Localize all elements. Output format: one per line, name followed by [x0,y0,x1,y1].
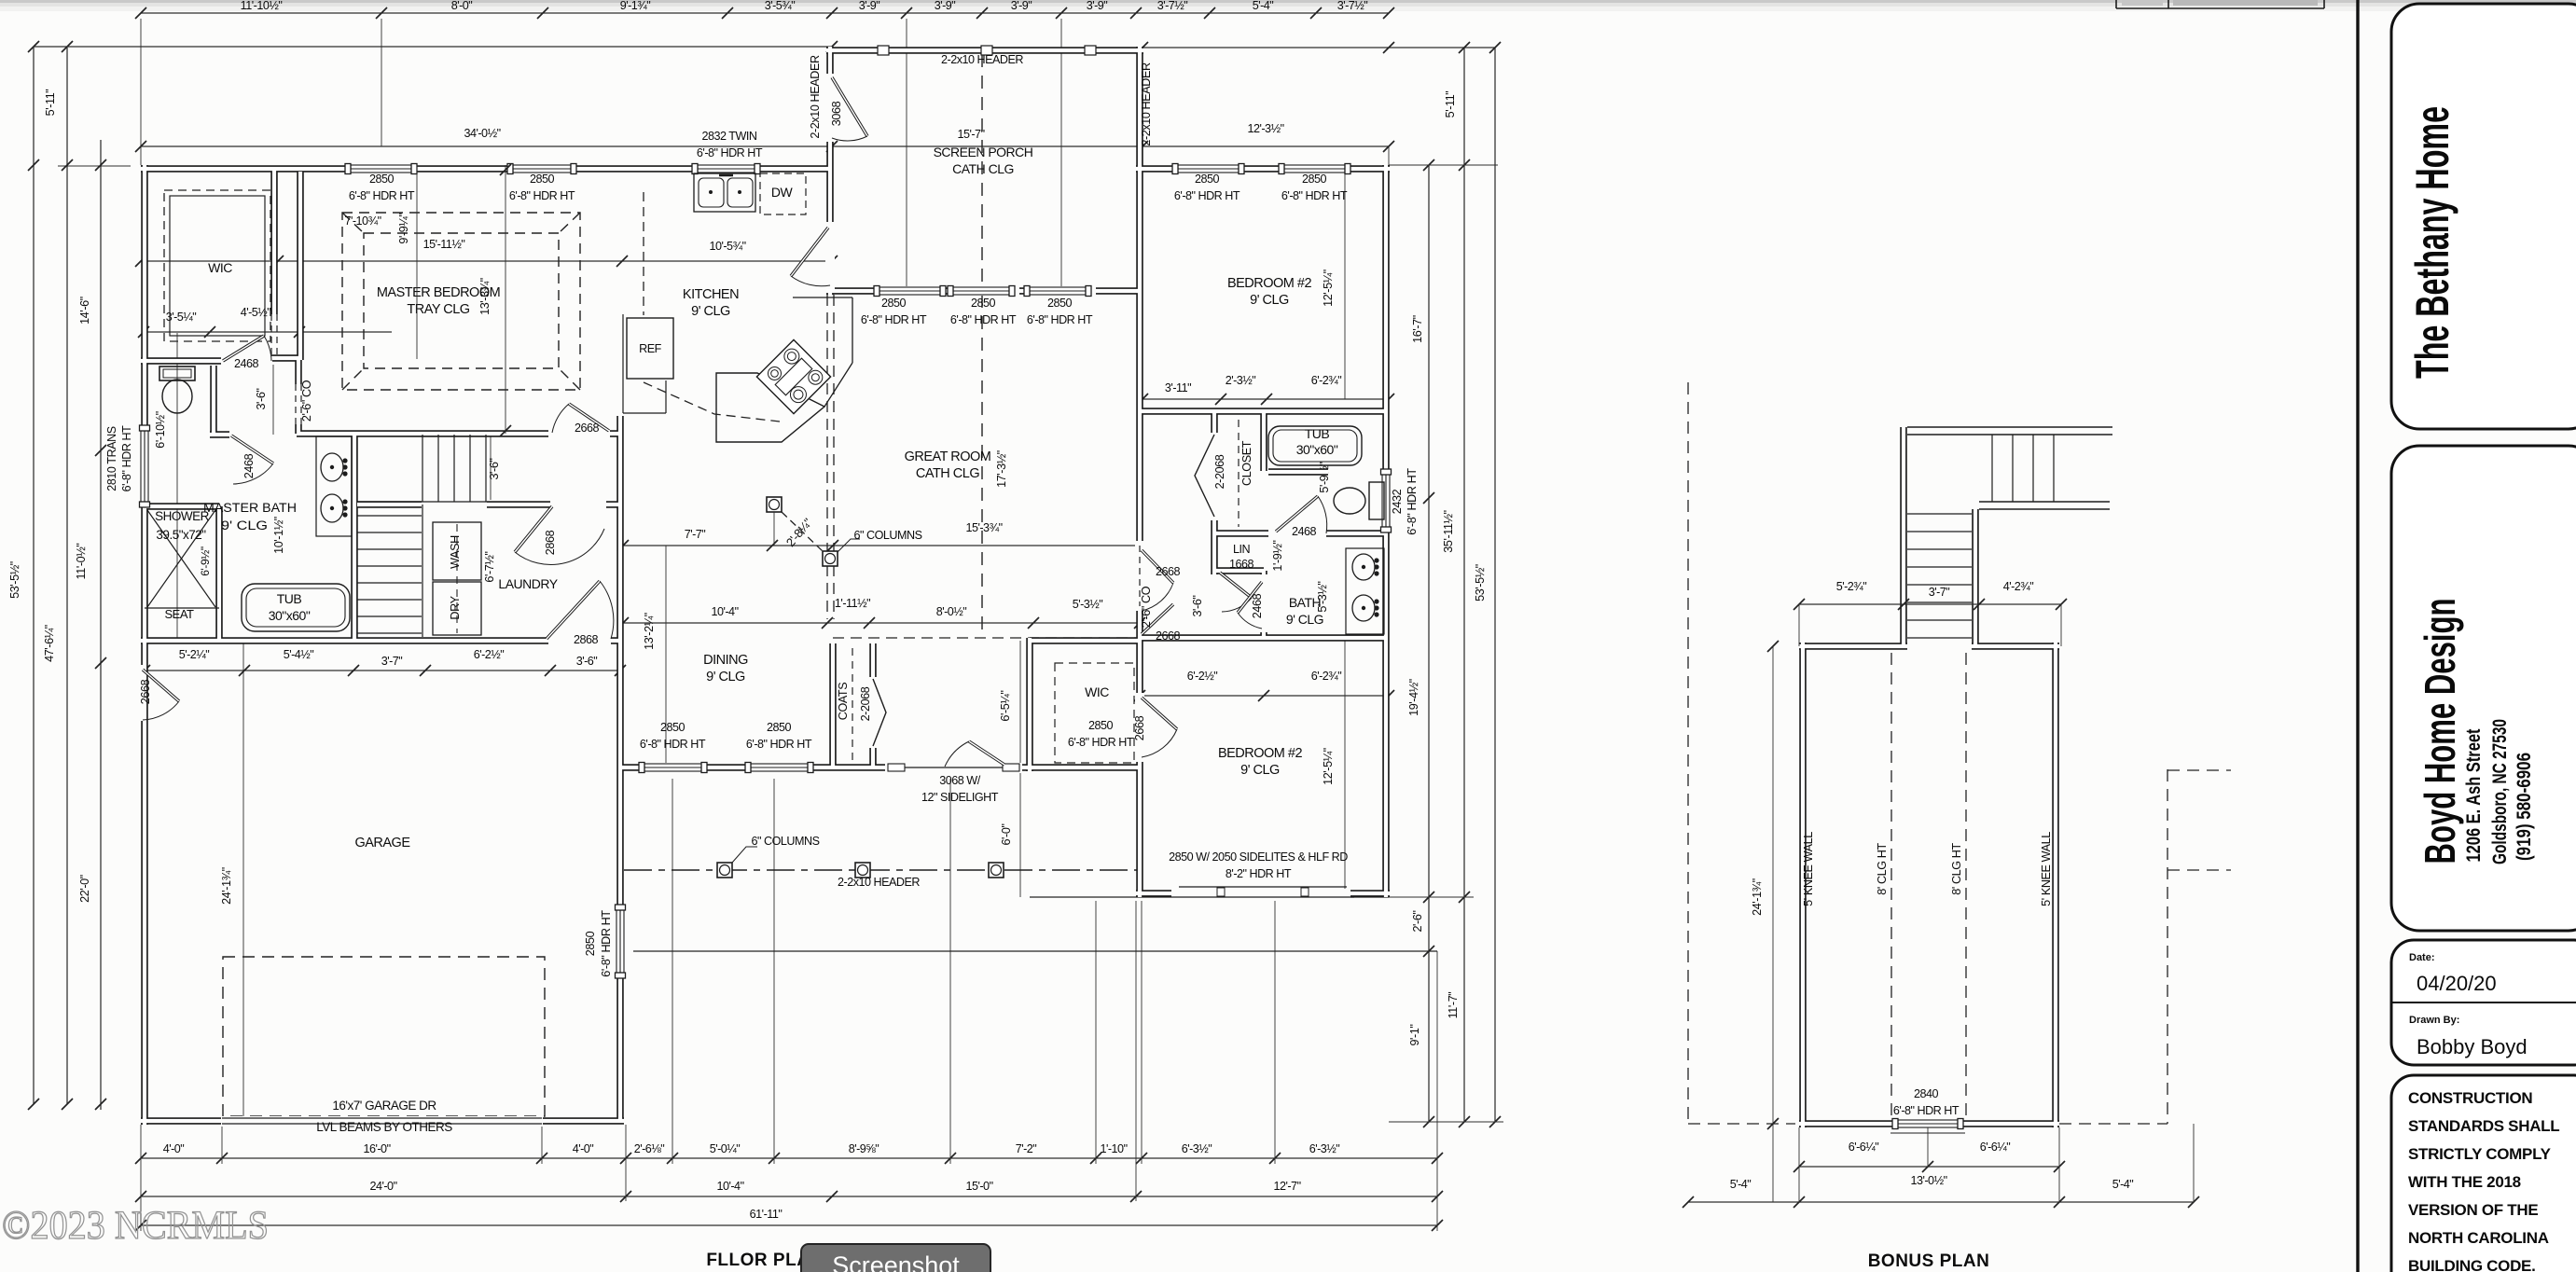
great room header dashed [826,295,828,552]
stove [756,339,830,413]
foyer dashed [833,637,1136,639]
scanner gray strip top edge [0,0,2576,3]
windows bedroom2 top [1178,165,1239,173]
dimension line top row 2 left [34,46,832,48]
master tub [242,584,350,631]
hall CO dashes [1139,546,1141,606]
hall bath vanity [1346,548,1384,634]
dim dining 13-2 [665,546,667,765]
dim toilet room 3-6 [272,365,274,435]
dim row under bath y719 [145,670,620,671]
bottom dimension row A [141,1157,1437,1159]
window bath 2432 [1382,475,1390,527]
kitchen counter dashed [644,192,780,422]
left vertical dimension lines [33,47,35,1104]
windows front wall [644,764,701,771]
window 2810 left wall [141,431,148,502]
hall closet dashed [1238,420,1240,527]
shower [147,510,215,607]
svg-text:CONSTRUCTION: CONSTRUCTION [2408,1089,2532,1107]
svg-text:1206 E. Ash Street: 1206 E. Ash Street [2463,728,2485,862]
bottom dimension row C [141,1224,1437,1226]
master bedroom door 2668 [569,404,609,431]
dim line great room y585 [623,545,1140,546]
stairs upper run [437,435,439,502]
bottom extension lines [140,1125,142,1231]
top right table fragment [2115,0,2117,8]
dim foyer 6-5 [1019,641,1021,767]
lin door [1220,573,1252,598]
master wic shelf solid [170,196,265,336]
wing west door 2668 [1142,698,1177,729]
dim line wic y355 [144,331,392,333]
wic door 2468 [223,336,264,361]
svg-text:STANDARDS SHALL: STANDARDS SHALL [2408,1117,2559,1135]
bonus knee wall dashed [1890,653,1892,1119]
svg-text:(919) 580-6906: (919) 580-6906 [2514,753,2535,861]
master vanity [316,436,352,536]
bonus dim top row [1799,603,2061,605]
garage door dashed rect [223,957,545,1116]
laundry south door 2868 [547,581,600,639]
wic bottom shelf dashed [1055,663,1134,763]
hall doors 2668 arcs [1142,550,1173,583]
bottom dimension row B [141,1196,1437,1197]
column diagonal dashed [782,512,824,552]
bonus plan dashed left roofline [1687,382,1689,1124]
porch top wall header dashes [836,49,1136,51]
porch slab edge [633,950,1437,952]
washer dryer [433,522,481,580]
bonus stair treads [1907,513,1972,515]
dimension line top row 1 [141,12,1389,14]
dim line bedroom2 top bottom y428 [1140,398,1389,400]
bonus dim 24-1 [1772,646,1774,1202]
window garage side [616,910,624,973]
dim line wing top y746 [1140,695,1389,697]
bonus stair landing walls [1907,426,2112,428]
title box date / drawn by [2391,940,2576,1065]
svg-text:BUILDING CODE.: BUILDING CODE. [2408,1257,2536,1272]
title box Boyd Home Design [2391,446,2576,931]
window master bedroom 2 [513,165,571,173]
porch screen door [832,77,867,136]
window kitchen 2832 [698,165,755,173]
great room ridge dashed [981,295,983,638]
sheet border line [2356,0,2359,1272]
wall openings [345,164,417,173]
wic hall CO dashes [270,314,272,358]
window master bedroom 1 [351,165,411,173]
laundry north door 2868 [515,506,552,552]
hall-bedroom door 2468 [1238,582,1262,613]
dim stair 3-6 [490,436,492,500]
bonus room walls [1799,427,2059,1127]
garage door panel [221,1116,543,1127]
master toilet [159,366,195,380]
svg-text:WITH THE 2018: WITH THE 2018 [2408,1173,2521,1191]
stairs lower run [357,515,422,517]
kitchen peninsula counter [716,373,824,442]
wing door sidelites [1179,886,1347,888]
kitchen sink [694,173,755,212]
dimension line top row 2 right [1143,47,1495,48]
bonus window 2840 [1894,1119,1958,1128]
master wic shelf dashed [164,190,270,341]
toilet room door 2468 [231,436,273,463]
dimension line 34-0 row y157 [141,145,1389,147]
svg-text:Boyd Home Design: Boyd Home Design [2416,599,2464,864]
great room columns [767,497,782,512]
window center extension line [176,333,178,641]
svg-text:VERSION OF THE: VERSION OF THE [2408,1201,2538,1219]
master bath CO dashes [295,384,297,424]
bonus dim row 1 [1799,1166,2059,1168]
dishwasher dashed [760,173,806,214]
windows porch bottom [879,287,940,295]
coats closet dashed [852,648,853,760]
dim garage 24-1 [242,643,244,1118]
svg-text:The Bethany Home: The Bethany Home [2406,106,2458,379]
refrigerator [627,318,673,379]
porch columns [717,863,732,878]
svg-text:04/20/20: 04/20/20 [2417,972,2497,995]
garage side entry door 2668 [143,670,179,701]
porch header dash-dot [624,869,1140,871]
tray ceiling dashed outer [342,213,580,390]
hall closet bifold 2-2068 [1210,433,1219,520]
kitchen porch door 3068 [791,228,828,276]
bonus dim row 2 [1688,1201,2194,1203]
porch left wall header dashes [829,149,831,224]
dim line master bedroom y280 [141,260,832,262]
tray ceiling dashed inner [364,233,559,368]
svg-text:STRICTLY COMPLY: STRICTLY COMPLY [2408,1145,2552,1163]
screen porch ridge dashed [981,54,983,288]
svg-text:Date:: Date: [2409,952,2435,963]
dim porch 6-0 [1019,773,1021,897]
front door with sidelights [888,764,905,771]
porch top screen posts [878,46,889,55]
exterior and interior walls [141,47,1390,1125]
hall bath toilet [1369,482,1384,519]
svg-text:Goldsboro, NC 27530: Goldsboro, NC 27530 [2489,719,2511,864]
bath door 2468 [1276,496,1318,532]
svg-text:Bobby Boyd: Bobby Boyd [2417,1035,2528,1058]
svg-text:NORTH CAROLINA: NORTH CAROLINA [2408,1229,2549,1247]
dim bedroom2 top 12-5 [1344,172,1346,399]
column leader great room [838,539,860,552]
porch wing slab line [1030,896,1389,898]
title box construction standards [2391,1075,2576,1272]
bonus stair risers [1991,435,1993,502]
coats bifold [873,679,886,746]
svg-text:Drawn By:: Drawn By: [2409,1015,2459,1026]
bonus plan dashed right roofline [2167,769,2168,1124]
hall bath tub [1268,426,1362,465]
dim line y668 [623,622,1140,624]
right vertical dimension lines [1428,165,1430,1122]
dim bedroom2 bottom 12-5 [1344,638,1346,893]
column leader porch [732,847,757,863]
